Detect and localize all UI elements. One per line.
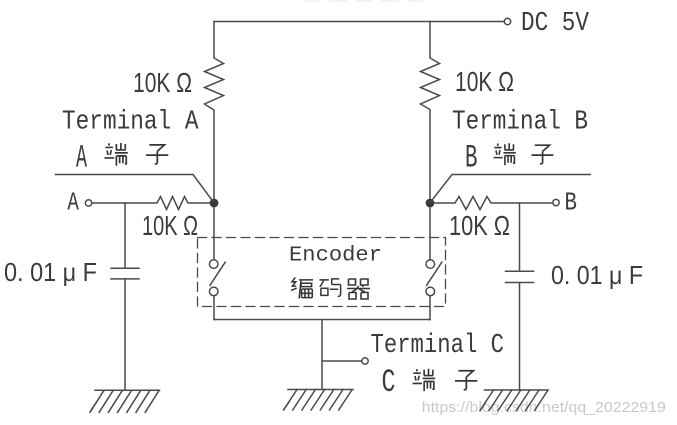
svg-text:Encoder: Encoder [289,244,382,268]
svg-text:0. 01 μ F: 0. 01 μ F [551,260,643,290]
svg-text:C: C [382,364,396,401]
svg-text:10K Ω: 10K Ω [455,66,514,97]
svg-text:Terminal B: Terminal B [452,108,588,138]
svg-text:A: A [76,140,87,177]
svg-text:10K Ω: 10K Ω [133,67,192,98]
svg-text:A: A [67,188,79,218]
svg-text:10K Ω: 10K Ω [142,210,198,241]
svg-text:Terminal C: Terminal C [371,331,505,361]
svg-text:https://blog.csdn.net/qq_20222: https://blog.csdn.net/qq_20222919 [422,399,666,416]
svg-text:B: B [465,140,478,177]
svg-text:B: B [565,188,578,218]
svg-text:10K Ω: 10K Ω [449,210,510,241]
svg-text:Terminal A: Terminal A [62,108,199,138]
svg-text:0. 01 μ F: 0. 01 μ F [4,257,97,287]
svg-text:DC 5V: DC 5V [521,9,590,39]
